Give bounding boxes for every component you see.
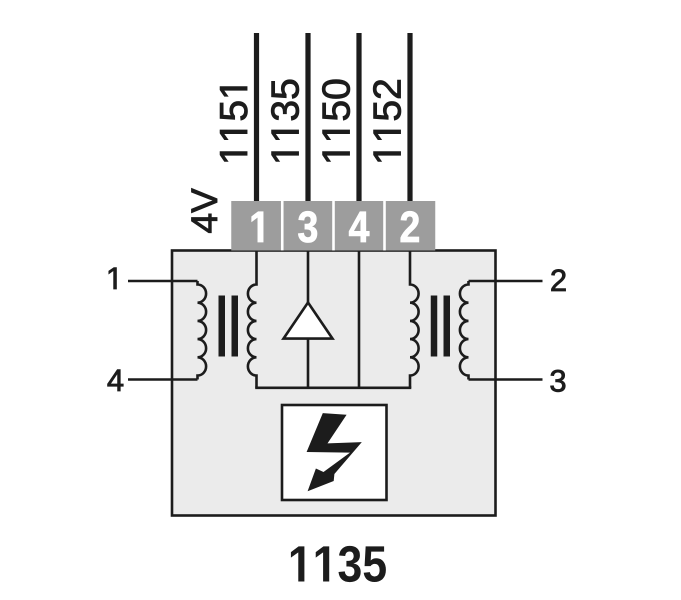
- diode D1: [284, 303, 333, 339]
- bottom rail: [255, 386, 411, 389]
- pin 2: [401, 211, 419, 242]
- wire 1151: [254, 33, 259, 201]
- coil body (ignition coil housing): [172, 251, 496, 516]
- label 4V connector designation: [192, 188, 217, 232]
- wire terminal 3: [469, 378, 543, 381]
- wire terminal 2: [469, 280, 543, 283]
- terminal label 2: [551, 269, 565, 291]
- pin 4: [349, 212, 369, 242]
- wire 1135: [305, 33, 310, 201]
- core bar right B: [444, 296, 451, 357]
- terminal label 4: [108, 370, 124, 391]
- secondary winding L2 left inner: [248, 251, 257, 388]
- primary winding L1 left outer: [198, 281, 207, 380]
- caption 1135: [291, 546, 386, 582]
- label 1135: [271, 80, 299, 161]
- label 1151: [220, 87, 247, 162]
- winding L3 right inner: [410, 251, 419, 388]
- connector block: [231, 201, 435, 251]
- pin 1: [252, 212, 263, 242]
- wire terminal 1: [128, 280, 198, 283]
- connector cell divider 1: [281, 201, 284, 251]
- wire diode to rail: [307, 339, 310, 388]
- label 1150: [322, 80, 350, 161]
- connector cell divider 3: [383, 201, 386, 251]
- high voltage box: [282, 405, 387, 500]
- connector cell divider 2: [332, 201, 335, 251]
- wire pin 3 to diode: [307, 251, 310, 304]
- core bar right A: [431, 296, 438, 357]
- wire terminal 4: [128, 378, 198, 381]
- wire pin 4 to rail: [358, 251, 361, 388]
- terminal label 1: [109, 268, 117, 289]
- core bar left A: [219, 296, 226, 357]
- high voltage flash symbol: [307, 413, 362, 491]
- label 1152: [373, 80, 401, 161]
- pin 3: [298, 211, 317, 242]
- wire 1152: [407, 33, 412, 201]
- wire 1150: [356, 33, 361, 201]
- winding L4 right outer: [460, 281, 469, 380]
- core bar left B: [232, 296, 239, 357]
- terminal label 3: [551, 370, 566, 392]
